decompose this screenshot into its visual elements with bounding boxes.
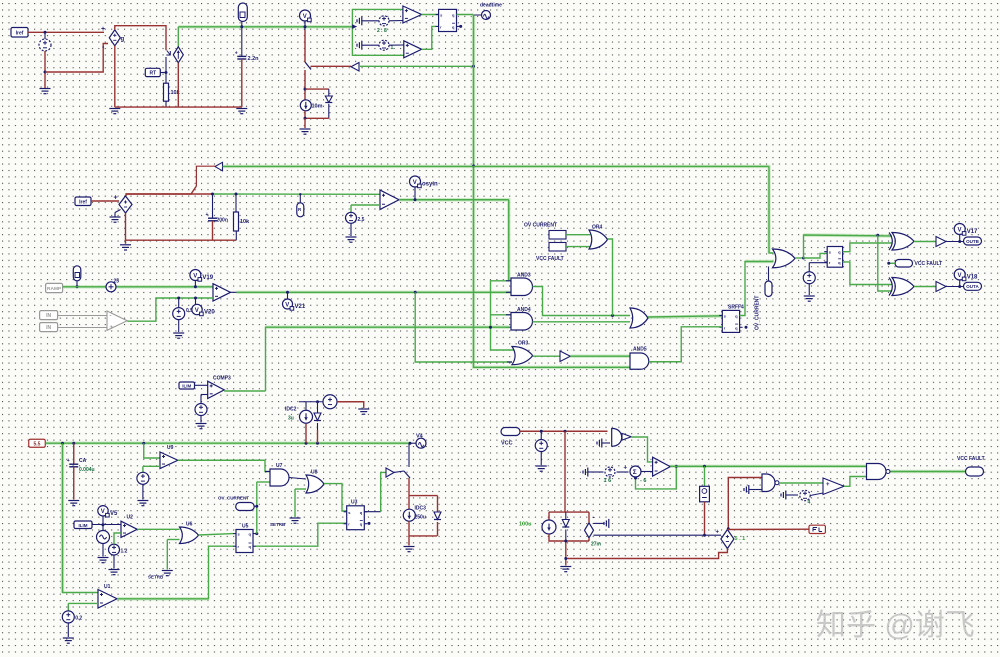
svg-text:SETRB: SETRB — [270, 522, 286, 527]
svg-text:SRFF4: SRFF4 — [728, 305, 744, 311]
svg-text:SETRB: SETRB — [148, 575, 164, 580]
svg-text:2.2n: 2.2n — [248, 56, 260, 62]
svg-text:osyin: osyin — [422, 182, 438, 188]
svg-text:IN: IN — [46, 313, 51, 319]
svg-text:+: + — [110, 325, 114, 331]
svg-text:RT: RT — [149, 70, 156, 76]
svg-text:V: V — [193, 273, 197, 279]
svg-text:2.5: 2.5 — [358, 217, 365, 223]
svg-text:25: 25 — [114, 279, 120, 285]
svg-text:250u: 250u — [415, 515, 426, 521]
svg-text:V5: V5 — [110, 511, 118, 517]
svg-text:deadtime: deadtime — [480, 3, 502, 9]
svg-text:VCC FAULT: VCC FAULT — [536, 256, 564, 262]
svg-text:V20: V20 — [204, 310, 215, 316]
svg-text:5 . 1: 5 . 1 — [735, 536, 746, 542]
svg-text:Iref: Iref — [79, 199, 87, 205]
svg-text:V: V — [195, 308, 199, 314]
svg-text:OUTB: OUTB — [966, 239, 979, 244]
svg-text:+: + — [206, 212, 209, 218]
svg-text:5.5: 5.5 — [34, 441, 41, 447]
svg-text:V: V — [958, 227, 962, 233]
svg-text:ILIM: ILIM — [79, 523, 88, 528]
svg-text:V4: V4 — [416, 434, 424, 440]
svg-text:OV_CURRENT: OV_CURRENT — [755, 296, 761, 330]
svg-text:U5: U5 — [242, 524, 249, 530]
svg-text:V: V — [413, 180, 417, 186]
svg-text:2 . 8: 2 . 8 — [377, 28, 387, 34]
svg-text:3u: 3u — [288, 416, 294, 422]
svg-text:V: V — [285, 302, 289, 308]
svg-text:10k: 10k — [171, 90, 181, 96]
svg-text:V19: V19 — [202, 275, 213, 281]
svg-text:IDC2: IDC2 — [285, 407, 297, 413]
svg-text:200n: 200n — [217, 218, 228, 224]
svg-text:+: + — [716, 530, 720, 536]
svg-text:V17: V17 — [967, 229, 978, 235]
svg-text:V: V — [101, 509, 105, 515]
svg-text:U3: U3 — [351, 500, 358, 506]
svg-text:-: - — [110, 314, 112, 320]
svg-text:0.004u: 0.004u — [79, 467, 95, 473]
svg-text:ILIM: ILIM — [182, 384, 191, 389]
svg-text:OUTA: OUTA — [966, 284, 979, 289]
svg-text:RAMP: RAMP — [47, 286, 62, 292]
svg-text:OV CURRENT: OV CURRENT — [524, 223, 557, 229]
svg-text:0.2: 0.2 — [75, 616, 82, 622]
svg-text:AND5: AND5 — [633, 347, 647, 353]
svg-text:Σ: Σ — [633, 469, 637, 476]
svg-text:VCC: VCC — [501, 441, 513, 447]
svg-text:+: + — [101, 26, 105, 33]
svg-text:COMP3: COMP3 — [213, 376, 231, 382]
svg-text:1: 1 — [391, 45, 394, 51]
svg-text:100u: 100u — [519, 522, 532, 528]
svg-text:g: g — [121, 37, 125, 43]
svg-text:10k: 10k — [240, 219, 250, 225]
svg-text:VCC FAULT: VCC FAULT — [957, 456, 985, 462]
svg-text:OV_CURRENT: OV_CURRENT — [218, 496, 249, 501]
svg-text:+: + — [624, 466, 628, 472]
svg-text:1.2: 1.2 — [121, 549, 128, 555]
svg-text:10m: 10m — [312, 104, 323, 110]
svg-text:+: + — [826, 482, 830, 488]
svg-text:+: + — [114, 195, 118, 202]
svg-text:CA: CA — [79, 458, 87, 464]
svg-text:IN: IN — [46, 325, 51, 331]
svg-text:1 6: 1 6 — [604, 478, 612, 484]
svg-text:U2: U2 — [127, 515, 134, 521]
svg-text:V21: V21 — [295, 304, 306, 310]
svg-text:V: V — [303, 14, 307, 20]
svg-text:V18: V18 — [967, 275, 978, 281]
svg-text:IDC3: IDC3 — [415, 506, 427, 512]
svg-text:U6: U6 — [186, 522, 193, 528]
svg-text:U9: U9 — [167, 445, 174, 451]
svg-text:U7: U7 — [276, 463, 283, 469]
svg-text:4: 4 — [808, 500, 811, 506]
svg-text:+: + — [235, 50, 238, 56]
svg-text:27m: 27m — [591, 542, 602, 548]
svg-text:U8: U8 — [311, 470, 318, 476]
svg-text:OR4: OR4 — [592, 225, 603, 231]
svg-text:- 6: - 6 — [640, 478, 646, 484]
svg-text:U1: U1 — [104, 584, 111, 590]
svg-text:VCC FAULT: VCC FAULT — [915, 261, 943, 267]
svg-text:V: V — [958, 273, 962, 279]
svg-text:Iref: Iref — [16, 30, 24, 36]
svg-text:+: + — [67, 458, 70, 464]
svg-text:OR3: OR3 — [518, 341, 529, 347]
